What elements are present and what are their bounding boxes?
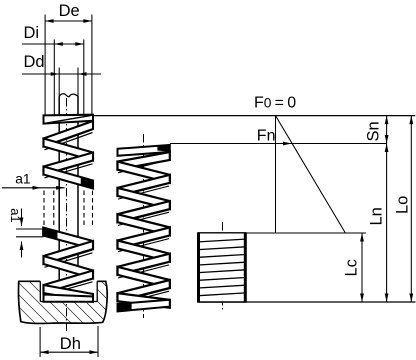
baseline [197, 301, 415, 303]
svg-text:Lc: Lc [342, 259, 360, 276]
Fn load line [170, 143, 387, 145]
dimension Dd [22, 73, 101, 75]
svg-text:Dh: Dh [60, 335, 81, 353]
left spring back coil slivers [45, 130, 93, 147]
solid (block length) spring [197, 233, 246, 302]
mandrel rod Dd edges [58, 97, 60, 282]
Ln level extension line [247, 232, 367, 234]
middle spring bottom end face [118, 300, 170, 312]
svg-text:Dd: Dd [24, 53, 45, 71]
dimension Lc [361, 233, 363, 302]
left spring front coil bands [44, 121, 94, 147]
extension lines for Di [53, 40, 55, 117]
middle spring front coil bands [118, 152, 170, 170]
hidden outline dashes in break region [43, 191, 45, 228]
svg-text:a1: a1 [15, 171, 30, 186]
left spring top end face [44, 115, 94, 124]
dimension Lo [410, 116, 412, 302]
svg-text:De: De [59, 2, 80, 20]
extension lines for De [44, 15, 46, 116]
svg-text:Lo: Lo [393, 196, 411, 214]
extension lines for Dd [58, 68, 60, 97]
middle spring top end face [118, 145, 170, 156]
middle spring ground tip (black) top right [158, 145, 170, 151]
bore recess in seat block [40, 280, 97, 301]
dimension Ln [386, 144, 388, 303]
centerline of left spring [66, 98, 68, 331]
svg-text:Ln: Ln [368, 207, 386, 225]
free length L0 reference line [93, 115, 415, 117]
spring characteristic diagonal [276, 116, 346, 233]
svg-text:Sn: Sn [365, 121, 383, 141]
extension lines for Dh [39, 327, 41, 357]
svg-text:Di: Di [24, 24, 40, 42]
dimension Di [22, 43, 84, 45]
svg-text:F0 = 0: F0 = 0 [254, 95, 296, 112]
middle spring ground tip (black) bottom left [118, 303, 132, 312]
centerline of solid spring block [222, 222, 224, 310]
force axis vertical [275, 116, 277, 233]
dimension De [45, 20, 92, 22]
mandrel rod break line (squiggle top) [59, 94, 78, 97]
left spring bottom end face [44, 295, 94, 302]
wire section cut (black) upper right [82, 177, 94, 188]
wire section cut (black) lower left [43, 228, 57, 240]
dimension Sn [386, 116, 388, 144]
dimension Dh [40, 351, 98, 353]
middle spring back coil slivers [118, 157, 169, 170]
svg-text:Fn: Fn [257, 128, 276, 145]
centerline of middle spring [143, 134, 145, 318]
